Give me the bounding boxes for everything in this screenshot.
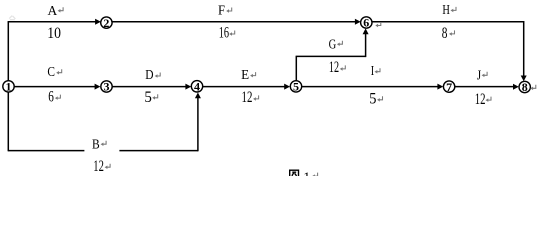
- wire: edge G up from node 5: [295, 56, 297, 80]
- caption: paragraph mark after 图1 (clipped): [312, 173, 318, 178]
- svg-text:6: 6: [363, 16, 369, 30]
- paragraph mark after 6: [55, 95, 61, 100]
- svg-text:12: 12: [475, 91, 486, 108]
- svg-text:8: 8: [442, 25, 448, 42]
- arrowhead edge H into node 8 (down): [521, 76, 527, 82]
- svg-text:D: D: [145, 68, 153, 83]
- arrowhead edge F into node 6: [355, 19, 361, 25]
- svg-text:12: 12: [93, 158, 104, 175]
- arrowhead edge D into node 4: [185, 84, 191, 90]
- node 5: [290, 81, 301, 92]
- svg-text:5: 5: [293, 80, 299, 94]
- svg-text:6: 6: [48, 89, 54, 106]
- paragraph mark after 8: [449, 30, 455, 35]
- svg-text:C: C: [47, 65, 55, 80]
- paragraph mark after I: [375, 68, 381, 73]
- arrowhead edge G into node 6 (up): [363, 28, 369, 34]
- paragraph mark after B: [101, 141, 107, 146]
- arrowhead edge B into node 4 (up): [195, 93, 201, 99]
- wire: edge G horizontal: [296, 55, 366, 57]
- paragraph mark after J: [482, 72, 488, 77]
- paragraph mark after H: [451, 7, 457, 12]
- paragraph mark after C: [56, 69, 62, 74]
- paragraph mark after 12 (G): [340, 65, 346, 70]
- svg-text:G: G: [329, 37, 337, 52]
- paragraph mark after D: [155, 73, 161, 78]
- svg-text:F: F: [218, 3, 225, 18]
- svg-text:7: 7: [446, 80, 452, 94]
- svg-text:12: 12: [242, 89, 253, 106]
- svg-text:16: 16: [219, 25, 229, 42]
- svg-text:B: B: [92, 137, 100, 152]
- wire: edge C node 1 to node 3: [14, 86, 96, 88]
- svg-text:5: 5: [369, 90, 376, 107]
- wire: edge H node 6 right then down to node 8: [372, 22, 524, 78]
- node 7: [443, 81, 454, 92]
- caption: character 图 (top visible, clipped by bottom edge): [290, 170, 299, 179]
- paragraph mark after 5: [152, 94, 158, 99]
- node 8: [519, 81, 530, 92]
- node 1: [3, 81, 14, 92]
- node 6: [361, 17, 372, 28]
- svg-text:1: 1: [303, 171, 310, 176]
- arrowhead edge J into node 8: [513, 84, 519, 90]
- svg-text:3: 3: [104, 80, 110, 94]
- svg-text:4: 4: [194, 79, 200, 93]
- paragraph mark after 12 (B): [105, 164, 111, 169]
- svg-text:I: I: [371, 64, 375, 79]
- wire: edge E node 4 to node 5: [203, 86, 286, 88]
- paragraph mark after node 8: [530, 85, 536, 90]
- wire: edge A riser from node 1 up: [7, 22, 9, 81]
- paragraph mark after G: [337, 41, 343, 46]
- wire: edge I node 5 to node 7: [302, 86, 440, 88]
- wire: edge A horizontal to node 2: [8, 21, 97, 23]
- wire: edge B riser up to node 4: [197, 97, 199, 151]
- faint ghost mark above A-edge corner: [9, 16, 15, 20]
- arrowhead edge E into node 5: [284, 84, 290, 90]
- svg-text:E: E: [241, 68, 249, 83]
- wire: edge D node 3 to node 4: [112, 86, 187, 88]
- wire: edge F node 2 to node 6: [112, 21, 356, 23]
- wire: edge G riser into node 6: [365, 33, 367, 57]
- paragraph mark after node 6: [375, 22, 381, 27]
- svg-text:5: 5: [144, 89, 152, 106]
- arrowhead edge I into node 7: [437, 84, 443, 90]
- svg-text:A: A: [47, 4, 58, 19]
- paragraph mark after 16: [229, 31, 235, 36]
- arrowhead edge A into node 2: [95, 19, 101, 25]
- node 4: [191, 81, 202, 92]
- node 3: [101, 81, 112, 92]
- wire: edge B horizontal left segment: [8, 150, 84, 152]
- wire: edge J node 7 to node 8: [455, 86, 515, 88]
- svg-text:2: 2: [103, 16, 109, 30]
- paragraph mark after 5 (I): [377, 96, 383, 101]
- svg-text:J: J: [477, 69, 482, 84]
- svg-text:H: H: [442, 3, 450, 18]
- paragraph mark after 12: [253, 95, 259, 100]
- node 2: [101, 17, 112, 28]
- svg-text:1: 1: [6, 79, 12, 93]
- wire: edge B horizontal right segment: [119, 150, 197, 152]
- wire: edge B down from node 1: [7, 92, 9, 151]
- svg-text:8: 8: [522, 80, 528, 94]
- paragraph mark after F: [226, 8, 232, 13]
- paragraph mark after A: [58, 7, 64, 12]
- arrowhead edge C into node 3: [95, 84, 101, 90]
- paragraph mark after E: [250, 72, 256, 77]
- svg-text:12: 12: [329, 59, 339, 76]
- paragraph mark after 12 (J): [486, 97, 492, 102]
- svg-text:10: 10: [47, 25, 61, 42]
